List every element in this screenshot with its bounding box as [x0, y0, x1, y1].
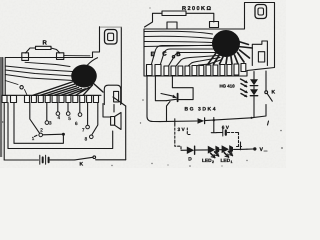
wire col 6 to contact 4 — [57, 103, 59, 112]
svg-text:E: E — [151, 51, 155, 58]
resistor R2 body — [162, 11, 186, 16]
stray tick mark — [268, 121, 269, 125]
pad left right-panel — [167, 22, 177, 29]
contact 7 — [86, 125, 90, 129]
switch K left — [75, 157, 93, 160]
stray dash L — [187, 128, 190, 135]
wire col 8 to contact 6 — [79, 103, 81, 113]
svg-text:2: 2 — [212, 160, 214, 164]
svg-text:6 V: 6 V — [222, 125, 230, 131]
via right panel — [172, 56, 174, 58]
trace t2 — [5, 66, 72, 72]
trace t5 with via — [5, 81, 27, 96]
svg-text:B: B — [176, 51, 181, 58]
arch bracket left panel — [104, 85, 120, 104]
svg-text:5: 5 — [68, 116, 71, 121]
battery GB left — [40, 155, 46, 164]
wire col 9 to contact 7 — [87, 103, 89, 125]
wire col 10 to contact 8 — [92, 103, 98, 135]
svg-text:2: 2 — [40, 127, 43, 132]
left board bottom-right diagonal edge — [113, 97, 126, 106]
svg-text:LED: LED — [202, 158, 212, 164]
mounting hole left panel — [105, 30, 118, 45]
contact 3 — [45, 121, 49, 125]
3V branch dashes — [175, 124, 181, 150]
wire col 1 — [3, 103, 5, 161]
arm drop wire — [14, 134, 63, 143]
LED2 — [208, 146, 219, 154]
wire col 4 to contact 2 — [30, 103, 40, 133]
top trace from pad to blob — [64, 55, 90, 57]
contact 5 — [66, 112, 70, 116]
right riser wire left panel — [125, 106, 127, 160]
contact 1 tick — [35, 135, 38, 136]
svg-text:1: 1 — [231, 160, 233, 164]
IC blob left — [71, 65, 97, 88]
photodiode 1 — [250, 79, 258, 85]
IC blob right — [212, 30, 240, 57]
wire col 2 — [7, 103, 9, 149]
arm pivot dot — [62, 133, 65, 136]
resistor R leads — [26, 48, 60, 53]
wire col 3 — [13, 103, 15, 144]
collector loop wire — [172, 76, 193, 100]
scan speckles — [2, 7, 283, 166]
svg-text:—: — — [264, 149, 268, 153]
svg-text:3: 3 — [49, 121, 52, 126]
pad in right bracket — [258, 52, 264, 62]
contact 2 — [39, 133, 43, 137]
resistor R body — [36, 46, 52, 49]
transistor BG base bar — [177, 94, 179, 102]
trace t1 — [25, 62, 70, 66]
3V junction tick — [174, 119, 176, 124]
transistor base-emitter diagonals — [161, 94, 177, 101]
dashed 6V to LED rail — [228, 133, 242, 147]
wire col 5 to contact 3 — [46, 103, 48, 121]
emitter rail — [160, 105, 266, 122]
outer bottom wire — [4, 159, 126, 161]
speaker — [111, 117, 115, 126]
svg-text:8: 8 — [85, 137, 88, 142]
pin row left board — [2, 96, 99, 103]
base feed wire — [155, 76, 166, 101]
battery 6V — [222, 129, 224, 136]
traces right panel — [144, 31, 213, 46]
junction dot 6V — [213, 119, 215, 121]
photodiode 2 — [250, 89, 258, 95]
left PCB board outline — [2, 27, 121, 104]
resistor R pads — [22, 53, 29, 61]
trace t4 — [5, 75, 73, 81]
switch K right — [265, 71, 267, 91]
blob legs to bracket — [237, 41, 252, 48]
via — [20, 86, 23, 89]
switch arm — [43, 133, 64, 136]
svg-text:6: 6 — [75, 121, 78, 126]
mounting hole right panel — [255, 5, 267, 19]
traces to E C B pins — [152, 46, 223, 67]
emitter drop wire — [167, 101, 171, 121]
contact 8 — [90, 135, 94, 139]
blob legs left — [33, 82, 103, 96]
paper noise — [0, 0, 286, 168]
diode D — [187, 147, 194, 155]
svg-text:D: D — [188, 157, 192, 163]
svg-text:R: R — [43, 40, 48, 47]
V+ terminal — [247, 148, 253, 150]
pad in arch — [114, 91, 119, 102]
LED rail bottom — [181, 149, 247, 150]
svg-text:4: 4 — [58, 115, 61, 120]
pad right right-panel — [210, 22, 219, 28]
contact 6 — [78, 113, 82, 117]
tick near rail — [240, 142, 242, 150]
svg-text:BG 3DK4: BG 3DK4 — [185, 107, 216, 113]
svg-text:C: C — [162, 51, 167, 58]
right PCB outline — [144, 3, 275, 77]
pin row right board — [147, 64, 246, 76]
bracket right panel — [252, 41, 267, 66]
svg-text:K: K — [80, 162, 84, 168]
inner loop wire — [8, 131, 113, 149]
blob top wire — [87, 58, 98, 66]
trace t3 — [5, 70, 73, 76]
svg-text:K: K — [272, 90, 276, 96]
blob right legs — [208, 50, 250, 64]
svg-text:LED: LED — [221, 158, 231, 164]
contact 4 — [56, 112, 60, 116]
light arrows HG410 — [241, 79, 248, 97]
6V branch — [211, 121, 222, 133]
svg-text:3 V: 3 V — [178, 127, 186, 133]
photodiode column wire — [253, 72, 255, 118]
speaker top wire — [103, 104, 111, 118]
rail diode — [198, 118, 205, 124]
emitter arrowhead — [173, 95, 177, 98]
wire col 7 to contact 5 — [67, 103, 69, 112]
svg-text:1: 1 — [32, 136, 35, 141]
svg-text:HG 410: HG 410 — [220, 83, 236, 88]
LED1 — [222, 145, 233, 153]
scan edge smudge — [0, 57, 2, 157]
rail junction dot — [250, 117, 252, 119]
svg-text:7: 7 — [82, 127, 85, 132]
left edge wire down to rail — [147, 76, 160, 122]
speaker pad stub — [113, 105, 115, 112]
resistor R2 leads — [145, 13, 214, 27]
